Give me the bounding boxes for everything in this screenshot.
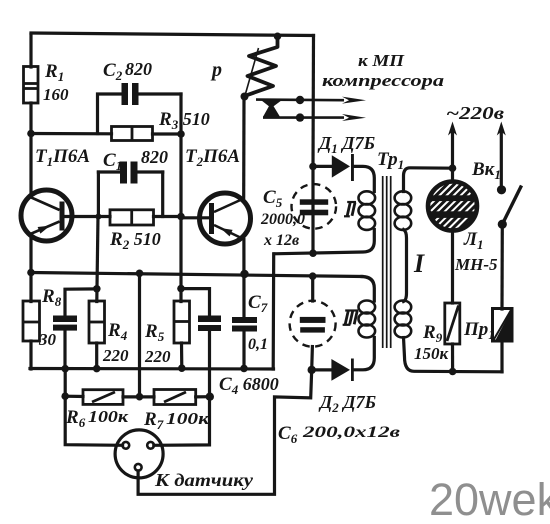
wire winding III bottom to D2 cathode — [354, 338, 375, 370]
svg-text:C7: C7 — [248, 292, 268, 315]
wire C1 right horizontal — [138, 170, 163, 173]
wire winding I middle link — [404, 230, 407, 302]
relay contact lower line to compressor — [263, 116, 344, 119]
wire C3 top lead — [65, 289, 97, 316]
svg-text:200,0х12в: 200,0х12в — [302, 424, 400, 441]
fuse Pr1 — [493, 309, 513, 342]
wire winding I bottom to lower bus — [404, 338, 503, 372]
arrowhead compressor upper — [342, 97, 366, 104]
wire R4 bottom — [95, 343, 98, 369]
wire top bus — [31, 33, 314, 36]
wire mains left arrow line — [451, 130, 454, 168]
svg-text:R8: R8 — [41, 286, 62, 309]
svg-text:R3 510: R3 510 — [158, 109, 210, 132]
svg-text:R7: R7 — [143, 409, 164, 432]
wire D2 anode lead — [312, 368, 332, 371]
wire R5 bottom — [180, 343, 184, 368]
resistor R4 — [89, 301, 105, 343]
wire C7 bottom — [242, 332, 245, 369]
wire R8 bottom to bottom bus — [29, 341, 32, 369]
svg-text:Тр1: Тр1 — [377, 149, 404, 172]
resistor R1 — [24, 67, 39, 104]
lamp L1 — [428, 182, 477, 231]
wire top bus right corner down to D1 node — [311, 36, 315, 167]
svg-text:2000,0: 2000,0 — [260, 211, 305, 228]
bus1 C5 minus to winding II bottom, jog down to bottom bus — [272, 254, 276, 369]
wire R6 left lead — [65, 395, 83, 398]
wire lamp bottom to R9 — [451, 232, 454, 304]
relay armature line — [245, 48, 259, 96]
svg-text:R5: R5 — [144, 321, 165, 344]
capacitor C2 — [122, 83, 139, 105]
mains right arrowhead — [497, 122, 506, 136]
svg-text:C1: C1 — [103, 150, 122, 173]
diode D2 — [331, 359, 353, 382]
wire T2 collector vertical from relay — [242, 97, 246, 198]
svg-text:C6: C6 — [278, 423, 298, 446]
wire T2 emitter down through rail A to C7 — [242, 240, 245, 318]
switch Vk1 terminals and blade — [497, 185, 522, 229]
rail A emitter rail — [31, 273, 362, 277]
resistor R8 — [23, 301, 40, 341]
winding I coils top — [395, 191, 412, 230]
svg-text:Т2П6А: Т2П6А — [185, 146, 240, 169]
node relay bottom junction — [241, 93, 249, 101]
resistor R9 variable — [445, 303, 460, 344]
svg-text:C5: C5 — [263, 187, 283, 210]
wire mains right arrow line — [500, 130, 503, 190]
svg-text:R1: R1 — [44, 61, 64, 84]
svg-text:100к: 100к — [166, 409, 209, 428]
wire C6 bottom stub — [310, 347, 314, 370]
transistor T1 — [21, 190, 72, 241]
svg-text:Д1 Д7Б: Д1 Д7Б — [317, 133, 375, 156]
capacitor C6 plates — [300, 317, 326, 333]
wire D1 cathode to winding II top — [354, 166, 375, 191]
capacitor C6 electrolytic dashed circle — [290, 301, 336, 347]
wire T1 base lead — [65, 215, 111, 218]
wire C6 top stub — [311, 276, 314, 301]
arrowhead compressor lower — [342, 114, 366, 121]
svg-text:100к: 100к — [88, 407, 128, 426]
wire switch to fuse top — [500, 224, 503, 309]
node contact upper terminal — [296, 96, 304, 104]
wire winding II bottom to bus1 — [274, 230, 374, 254]
label III winding — [343, 311, 358, 325]
wire C4 bottom / R7 right / connector right pin — [154, 331, 210, 445]
svg-text:компрессора: компрессора — [322, 71, 445, 90]
wire lower right bus corner up to fuse bottom — [500, 341, 503, 372]
winding I coils bottom — [395, 301, 412, 338]
svg-text:Вк1: Вк1 — [471, 159, 501, 182]
mains left arrowhead — [448, 122, 457, 136]
svg-text:C2: C2 — [103, 60, 123, 83]
svg-text:220: 220 — [102, 346, 129, 365]
connector socket to sensor — [115, 430, 163, 478]
svg-text:0,1: 0,1 — [248, 336, 268, 353]
winding III coils — [359, 301, 376, 338]
wire R7 right lead — [196, 395, 210, 398]
svg-text:220: 220 — [144, 347, 171, 366]
wire left lower vertical to connector left pin — [65, 369, 122, 446]
wire left vertical top corner to R1 — [29, 35, 32, 68]
wire C1 left horizontal — [98, 170, 121, 173]
resistor R6 variable — [83, 390, 123, 405]
capacitor C1 — [120, 162, 138, 184]
wire lamp top stub — [451, 168, 454, 181]
resistor R7 variable — [154, 390, 196, 405]
diode D1 — [332, 154, 354, 181]
wire R2 right lead — [154, 215, 182, 218]
svg-text:160: 160 — [43, 85, 69, 104]
capacitor C5 plates — [300, 199, 328, 215]
svg-text:R6: R6 — [65, 407, 86, 430]
transistor T2 — [200, 193, 251, 244]
svg-text:к МП: к МП — [358, 51, 405, 70]
transformer Tr1 core — [383, 176, 391, 348]
bottom bus negative rail — [30, 367, 274, 371]
wire R1 bottom to T1 collector node — [29, 103, 32, 193]
wire sensor path from connector bottom pin to D2 node — [138, 370, 312, 494]
capacitor C3 — [53, 316, 77, 331]
wire center vertical rail A to R6/R7 node — [138, 273, 141, 397]
capacitor C7 — [232, 317, 257, 332]
relay contact black triangle — [261, 100, 281, 116]
svg-text:C4 6800: C4 6800 — [219, 374, 279, 397]
winding II coils — [359, 191, 376, 230]
svg-text:150к: 150к — [414, 344, 449, 363]
resistor R5 — [174, 301, 190, 343]
relay contact upper line to compressor — [256, 98, 344, 101]
wire T1 emitter down to rail A — [29, 239, 32, 302]
svg-text:Пр1: Пр1 — [463, 319, 495, 342]
resistor R3 — [112, 127, 153, 141]
wire R3 right lead — [153, 132, 182, 135]
wire R6 right to R7 left — [123, 395, 154, 398]
relay coil p zigzag — [245, 38, 278, 96]
wire net1 vertical (C2/R3/R2/T2-base/R5) — [179, 94, 182, 302]
label II winding — [344, 202, 356, 216]
node contact lower terminal — [296, 113, 304, 121]
capacitor C5 electrolytic dashed circle — [292, 184, 337, 229]
resistor R2 — [110, 210, 154, 225]
svg-text:р: р — [210, 59, 222, 81]
svg-text:R2 510: R2 510 — [109, 229, 161, 252]
svg-text:R9: R9 — [422, 322, 443, 345]
wire rail A to winding III top — [362, 277, 374, 302]
svg-text:I: I — [413, 249, 425, 278]
wire winding I top lead to lamp node — [404, 168, 453, 192]
wire C1 right riser — [161, 172, 164, 217]
svg-text:Д2 Д7Б: Д2 Д7Б — [318, 392, 376, 415]
svg-text:х 12в: х 12в — [263, 232, 299, 249]
wire C2 right to vertical net1 — [139, 92, 182, 95]
node A collector node wire to R3 left — [31, 132, 112, 136]
svg-text:~220в: ~220в — [446, 103, 504, 123]
wire C3 bottom lead — [63, 331, 66, 369]
svg-text:МН-5: МН-5 — [454, 255, 498, 274]
svg-text:К датчику: К датчику — [154, 470, 254, 490]
svg-text:Л1: Л1 — [463, 229, 484, 252]
wire riser from collector node to C2 left — [98, 94, 122, 134]
svg-text:20wek: 20wek — [429, 474, 550, 524]
svg-text:R4: R4 — [107, 320, 128, 343]
svg-text:30: 30 — [38, 330, 57, 349]
wire D1 node through C5 down to bus1 — [311, 166, 314, 253]
wire C4 top lead from net1 — [181, 289, 210, 316]
svg-text:Т1П6А: Т1П6А — [35, 146, 90, 169]
wire C1 left riser down to base node — [97, 172, 100, 217]
wire T2 base lead — [181, 216, 209, 219]
capacitor C4 — [198, 316, 221, 332]
svg-text:820: 820 — [141, 147, 168, 167]
svg-text:820: 820 — [125, 59, 152, 79]
wire D1 anode lead — [313, 165, 332, 168]
wire R9 bottom — [451, 344, 454, 372]
wire base node down to R4 (crosses rail A) — [97, 217, 98, 302]
